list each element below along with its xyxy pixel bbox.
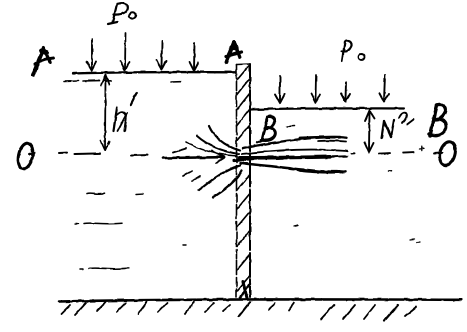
jet bottom boundary bbox=[240, 163, 346, 172]
jet inner line bbox=[242, 150, 347, 154]
wall hatching (upper part) bbox=[237, 65, 251, 142]
wall top cap bbox=[237, 63, 251, 66]
jet core continuation bbox=[330, 155, 347, 158]
label B (right) bbox=[429, 105, 446, 136]
pressure arrow 1 (right) bbox=[275, 76, 285, 103]
streamline upper 1 bbox=[209, 126, 240, 151]
datum label O (left) bbox=[16, 142, 35, 170]
small dash near B bbox=[287, 125, 294, 128]
head arrow h2 (double headed) bbox=[365, 111, 375, 153]
jet top boundary thick segment bbox=[300, 136, 340, 140]
label P0 (left) bbox=[108, 3, 136, 24]
water marks left reservoir row 3 bbox=[80, 268, 83, 270]
small dot below datum bbox=[388, 170, 391, 172]
water marks right reservoir bbox=[294, 226, 298, 227]
axis arrow into orifice bbox=[163, 149, 225, 164]
datum dashes O-O (left) bbox=[59, 153, 147, 155]
wall hatching (lower part) bbox=[237, 175, 250, 291]
ground line bbox=[59, 299, 461, 301]
datum dashes O-O (right) bbox=[351, 152, 442, 154]
water mark dot bbox=[183, 244, 186, 246]
pressure arrow 2 (right) bbox=[311, 75, 320, 103]
streamline lower 1 bbox=[199, 166, 240, 191]
wall foot blob bbox=[243, 282, 247, 298]
pressure arrow 3 (right) bbox=[341, 82, 350, 102]
label P0 (right) bbox=[342, 41, 365, 61]
small plus mark bbox=[420, 147, 425, 151]
streamline ticks lower bbox=[183, 171, 192, 176]
pressure arrow 4 (right) bbox=[380, 75, 389, 102]
wall left edge bbox=[236, 65, 238, 298]
label A (left) bbox=[33, 49, 53, 76]
wall right edge bbox=[249, 64, 251, 297]
water marks left reservoir row 1 bbox=[87, 192, 104, 195]
jet bottom thick segment bbox=[298, 170, 342, 172]
ground hatching bbox=[61, 302, 416, 321]
pressure arrow 3 (left) bbox=[157, 41, 167, 70]
pressure arrow 1 (left) bbox=[87, 39, 97, 71]
jet core thick bbox=[239, 157, 330, 158]
streamline upper 3 bbox=[186, 142, 237, 156]
pressure arrow 4 (left) bbox=[190, 43, 199, 71]
label B (left, under B-B line) bbox=[257, 117, 275, 143]
label h1 bbox=[114, 93, 137, 131]
orifice core blob bbox=[234, 159, 253, 161]
free surface line A-A bbox=[73, 72, 236, 73]
pressure arrow 2 (left) bbox=[121, 33, 130, 71]
jet top boundary bbox=[243, 137, 347, 149]
label A (right, at wall) bbox=[226, 42, 242, 62]
label h2 bbox=[382, 113, 414, 138]
jet top doubled line bbox=[318, 140, 346, 143]
datum label O (right) bbox=[437, 140, 458, 167]
head arrow h1 (double headed) bbox=[101, 75, 110, 151]
streamline lower 2 bbox=[213, 171, 242, 198]
dashes under A-A line bbox=[64, 81, 180, 82]
water marks left reservoir row 2 bbox=[75, 223, 78, 225]
free surface line B-B bbox=[251, 108, 405, 109]
streamline upper 2 bbox=[197, 136, 239, 154]
